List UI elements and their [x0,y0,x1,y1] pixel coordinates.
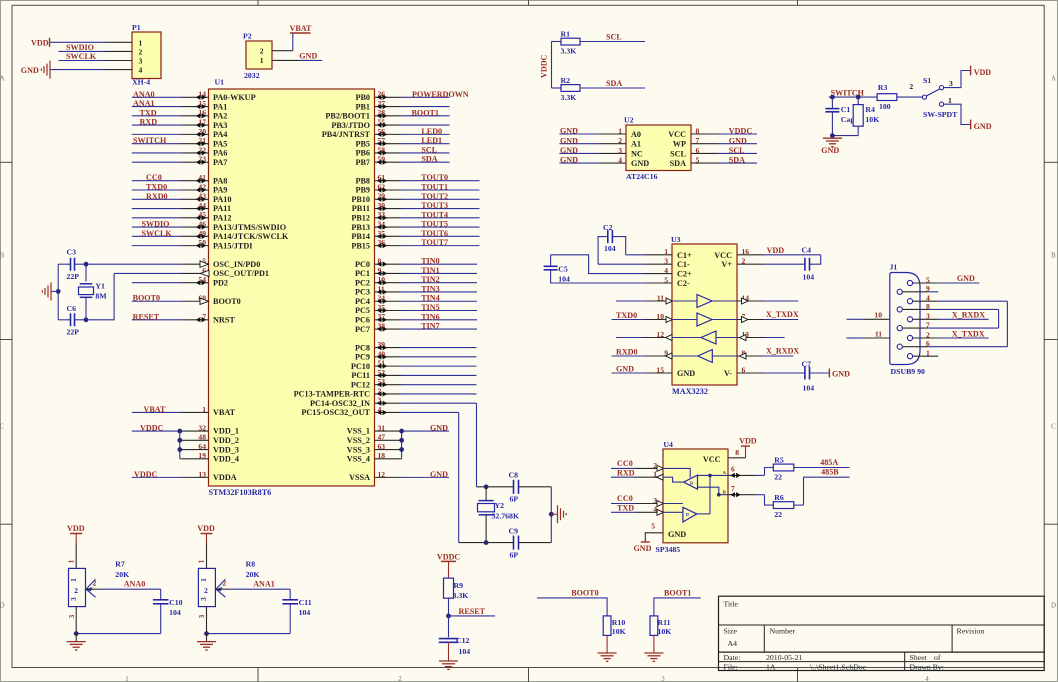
svg-text:PA1: PA1 [213,102,227,111]
svg-text:PA4: PA4 [213,130,227,139]
svg-text:TIN1: TIN1 [421,266,439,275]
svg-text:22: 22 [774,510,782,519]
svg-text:5: 5 [926,275,930,284]
svg-text:RXD0: RXD0 [616,348,638,357]
svg-text:PC13-TAMPER-RTC: PC13-TAMPER-RTC [294,390,371,399]
svg-text:104: 104 [558,275,570,284]
svg-text:R1: R1 [561,30,571,39]
svg-text:Sheet: Sheet [910,653,928,662]
svg-text:32.768K: 32.768K [492,512,520,521]
svg-text:GND: GND [832,370,850,379]
svg-text:PB14: PB14 [351,232,370,241]
svg-text:10K: 10K [658,627,672,636]
svg-text:PB1: PB1 [355,102,370,111]
svg-text:2: 2 [222,579,226,588]
svg-text:SW-SPDT: SW-SPDT [923,110,958,119]
svg-text:C7: C7 [802,360,812,369]
svg-text:GND: GND [677,369,695,378]
svg-text:VDDC: VDDC [140,424,164,433]
svg-text:ANA1: ANA1 [133,99,155,108]
svg-text:PC7: PC7 [355,325,370,334]
svg-text:1: 1 [197,559,205,563]
svg-text:RXD: RXD [617,468,635,477]
svg-text:XH-4: XH-4 [132,78,150,87]
svg-text:GND: GND [299,52,317,61]
svg-text:TOUT2: TOUT2 [421,192,448,201]
svg-text:GND: GND [430,470,448,479]
svg-text:2: 2 [139,47,143,56]
svg-text:PC4: PC4 [355,297,370,306]
svg-text:C8: C8 [509,471,519,480]
svg-text:C2-: C2- [677,279,690,288]
svg-text:VSS_4: VSS_4 [347,455,370,464]
svg-text:RESET: RESET [133,312,160,321]
svg-text:R4: R4 [865,105,875,114]
svg-text:LED0: LED0 [421,127,442,136]
svg-text:SCL: SCL [729,146,745,155]
svg-text:B: B [723,490,726,495]
svg-text:GND: GND [560,146,578,155]
svg-text:TXD: TXD [140,108,157,117]
svg-text:PA14/JTCK/SWCLK: PA14/JTCK/SWCLK [213,232,289,241]
svg-text:TOUT3: TOUT3 [421,201,448,210]
svg-text:2: 2 [909,82,913,91]
svg-text:2: 2 [74,586,78,595]
svg-text:9: 9 [926,284,930,293]
svg-text:C9: C9 [509,527,519,536]
svg-text:PA9: PA9 [213,186,227,195]
svg-text:GND: GND [21,66,39,75]
svg-text:3: 3 [139,57,143,66]
svg-text:PB10: PB10 [351,195,370,204]
svg-text:NC: NC [631,149,643,158]
svg-text:VBAT: VBAT [144,405,166,414]
svg-text:6: 6 [926,339,930,348]
svg-text:3: 3 [68,614,76,618]
svg-text:NRST: NRST [213,315,235,324]
svg-text:VCC: VCC [703,455,721,464]
svg-text:1: 1 [202,405,206,414]
svg-text:PC12: PC12 [351,380,370,389]
svg-text:BOOT0: BOOT0 [571,589,598,598]
svg-text:CC0: CC0 [146,173,162,182]
svg-text:A4: A4 [728,639,738,648]
svg-text:TOUT4: TOUT4 [421,210,448,219]
svg-text:VDD_4: VDD_4 [213,455,239,464]
svg-text:BOOT1: BOOT1 [664,589,691,598]
svg-text:TOUT0: TOUT0 [421,173,448,182]
svg-text:20K: 20K [115,570,129,579]
svg-text:C6: C6 [67,304,77,313]
svg-text:PC2: PC2 [355,278,370,287]
svg-text:SCL: SCL [421,145,437,154]
svg-text:64: 64 [198,442,206,451]
svg-text:TIN4: TIN4 [421,294,439,303]
svg-text:BOOT0: BOOT0 [213,297,241,306]
svg-text:STM32F103R8T6: STM32F103R8T6 [209,488,272,497]
svg-text:Date:: Date: [724,653,741,662]
svg-text:3.3K: 3.3K [453,591,469,600]
svg-text:ANA1: ANA1 [253,580,275,589]
svg-text:RXD: RXD [140,118,158,127]
svg-text:GND: GND [821,146,839,155]
svg-text:TOUT5: TOUT5 [421,220,448,229]
svg-text:RESET: RESET [459,607,486,616]
svg-text:2: 2 [93,579,97,588]
svg-text:TOUT6: TOUT6 [421,229,448,238]
svg-text:104: 104 [299,608,311,617]
svg-text:GND: GND [560,136,578,145]
svg-text:OSC_IN/PD0: OSC_IN/PD0 [213,260,260,269]
svg-text:AT24C16: AT24C16 [626,172,658,181]
svg-text:TXD: TXD [617,503,634,512]
svg-text:VDD_2: VDD_2 [213,436,239,445]
svg-text:104: 104 [169,608,181,617]
svg-text:TOUT1: TOUT1 [421,183,448,192]
svg-text:PC8: PC8 [355,343,370,352]
svg-text:C5: C5 [558,265,568,274]
svg-text:PB4/JNTRST: PB4/JNTRST [322,130,371,139]
svg-text:C12: C12 [456,636,470,645]
svg-text:2: 2 [653,461,657,470]
svg-text:19: 19 [198,451,206,460]
svg-text:4: 4 [618,156,622,165]
svg-text:SDA: SDA [670,159,686,168]
svg-text:2010-05-21: 2010-05-21 [766,653,802,662]
svg-text:3: 3 [200,597,208,601]
svg-text:6P: 6P [510,495,519,504]
svg-text:Title: Title [724,600,739,609]
svg-text:GND: GND [560,156,578,165]
svg-text:VDD: VDD [767,246,785,255]
svg-text:8: 8 [926,302,930,311]
svg-text:TIN0: TIN0 [421,257,439,266]
svg-text:D: D [1051,602,1056,610]
svg-text:PB13: PB13 [351,223,370,232]
svg-text:ANA0: ANA0 [133,90,155,99]
svg-text:1A_: 1A_ [766,662,780,671]
svg-text:8: 8 [735,448,739,457]
svg-text:3: 3 [198,614,206,618]
svg-text:PA7: PA7 [213,158,227,167]
svg-text:31: 31 [378,423,386,432]
svg-text:A1: A1 [631,140,641,149]
svg-text:PC15-OSC32_OUT: PC15-OSC32_OUT [301,408,370,417]
svg-text:1: 1 [260,56,264,65]
svg-text:PC14-OSC32_IN: PC14-OSC32_IN [310,399,370,408]
svg-text:SWDIO: SWDIO [66,43,94,52]
svg-text:P1: P1 [132,23,141,32]
svg-text:\..\Sheet1.SchDoc: \..\Sheet1.SchDoc [810,662,867,671]
svg-text:PA15/JTDI: PA15/JTDI [213,241,252,250]
svg-text:B: B [1051,252,1056,260]
svg-text:PA12: PA12 [213,214,232,223]
svg-text:Drawn By:: Drawn By: [910,662,944,671]
svg-text:10K: 10K [612,627,626,636]
svg-text:SCL: SCL [670,149,686,158]
svg-text:5: 5 [651,522,655,531]
svg-text:VCC: VCC [714,251,732,260]
svg-text:DSUB9 90: DSUB9 90 [891,367,926,376]
svg-text:VBAT: VBAT [213,408,236,417]
svg-text:3: 3 [661,675,665,682]
svg-text:104: 104 [803,273,815,282]
svg-text:File:: File: [724,662,738,671]
svg-text:PB2/BOOT1: PB2/BOOT1 [325,112,370,121]
svg-text:Y1: Y1 [95,282,105,291]
svg-text:TIN2: TIN2 [421,275,439,284]
svg-text:GND: GND [729,136,747,145]
svg-text:2: 2 [204,586,208,595]
svg-text:A: A [0,75,5,83]
svg-text:1: 1 [139,38,143,47]
svg-text:PC3: PC3 [355,288,370,297]
svg-text:VDD: VDD [739,437,757,446]
svg-text:PA0-WKUP: PA0-WKUP [213,93,256,102]
svg-text:PA6: PA6 [213,149,227,158]
svg-text:R7: R7 [115,560,125,569]
svg-text:TXD0: TXD0 [146,183,167,192]
svg-text:10: 10 [874,311,882,320]
svg-text:PC5: PC5 [355,306,370,315]
svg-text:GND: GND [957,274,975,283]
svg-text:BOOT0: BOOT0 [133,294,160,303]
svg-text:WP: WP [673,140,686,149]
svg-text:VDD: VDD [974,68,992,77]
svg-text:VDDC: VDDC [540,54,549,78]
svg-text:R8: R8 [246,560,256,569]
svg-text:PA8: PA8 [213,176,227,185]
svg-text:X_TXDX: X_TXDX [766,310,799,319]
svg-text:C2: C2 [603,223,613,232]
svg-text:1: 1 [653,470,657,479]
svg-text:C1: C1 [841,105,851,114]
svg-text:1: 1 [70,578,78,582]
svg-text:V-: V- [724,369,732,378]
svg-text:3.3K: 3.3K [561,47,577,56]
svg-text:PD2: PD2 [213,278,228,287]
svg-text:Number: Number [770,627,796,636]
svg-text:D: D [0,602,5,610]
svg-text:C10: C10 [169,598,183,607]
svg-text:GND: GND [634,544,652,553]
svg-text:SDA: SDA [729,156,745,165]
svg-text:C: C [1051,423,1056,431]
svg-text:2: 2 [398,675,402,682]
svg-text:8M: 8M [95,292,107,301]
svg-text:X_RXDX: X_RXDX [766,347,799,356]
svg-text:485A: 485A [820,458,838,467]
svg-text:CC0: CC0 [617,459,633,468]
svg-text:R10: R10 [612,618,626,627]
svg-text:J1: J1 [890,263,898,272]
svg-text:R9: R9 [454,581,464,590]
svg-text:7: 7 [926,321,930,330]
svg-text:PA10: PA10 [213,195,232,204]
svg-text:TXD0: TXD0 [616,311,637,320]
svg-text:22P: 22P [67,328,80,337]
svg-text:GND: GND [668,530,686,539]
svg-text:3: 3 [70,597,78,601]
svg-text:Revision: Revision [957,627,985,636]
svg-text:VDDC: VDDC [134,470,158,479]
svg-text:R2: R2 [561,76,571,85]
svg-text:VDDC: VDDC [729,127,753,136]
svg-text:PC1: PC1 [355,269,370,278]
svg-text:104: 104 [803,384,815,393]
svg-text:SP3485: SP3485 [656,545,681,554]
svg-text:TIN5: TIN5 [421,303,439,312]
svg-text:POWERDOWN: POWERDOWN [412,90,469,99]
svg-text:VDD: VDD [67,524,85,533]
svg-text:R6: R6 [774,493,784,502]
svg-text:Y2: Y2 [495,501,505,510]
svg-text:PB0: PB0 [355,93,370,102]
svg-text:TOUT7: TOUT7 [421,238,448,247]
svg-text:VDD_1: VDD_1 [213,427,239,436]
svg-text:B: B [0,252,5,260]
svg-text:C2+: C2+ [677,270,692,279]
svg-text:2032: 2032 [244,71,260,80]
svg-text:1: 1 [618,126,622,135]
svg-text:BOOT1: BOOT1 [412,108,439,117]
svg-text:20K: 20K [246,570,260,579]
svg-text:22: 22 [774,473,782,482]
svg-text:A0: A0 [631,130,641,139]
svg-text:C11: C11 [299,598,312,607]
svg-text:C1+: C1+ [677,251,692,260]
svg-text:X_TXDX: X_TXDX [952,329,985,338]
svg-text:VSS_3: VSS_3 [347,445,370,454]
svg-text:P2: P2 [243,32,252,41]
svg-text:of: of [934,653,941,662]
svg-text:U4: U4 [663,440,673,449]
svg-text:PC9: PC9 [355,353,370,362]
svg-text:6P: 6P [510,551,519,560]
svg-text:U3: U3 [671,235,681,244]
svg-text:PB11: PB11 [352,204,370,213]
svg-text:GND: GND [560,127,578,136]
svg-text:PB5: PB5 [355,139,370,148]
svg-text:13: 13 [198,470,206,479]
svg-text:TIN3: TIN3 [421,284,439,293]
svg-text:SWCLK: SWCLK [142,229,173,238]
svg-text:PB15: PB15 [351,241,370,250]
svg-text:PB9: PB9 [355,186,370,195]
svg-text:PB6: PB6 [355,149,370,158]
svg-text:4: 4 [925,675,929,682]
svg-text:1: 1 [67,559,75,563]
svg-text:X_RXDX: X_RXDX [952,311,985,320]
svg-text:48: 48 [198,433,206,442]
svg-text:VDD: VDD [31,39,49,48]
svg-text:104: 104 [604,244,616,253]
svg-text:SDA: SDA [421,155,437,164]
svg-text:RXD0: RXD0 [146,192,168,201]
svg-text:18: 18 [378,451,386,460]
svg-text:GND: GND [631,159,649,168]
svg-text:47: 47 [378,433,386,442]
svg-text:U1: U1 [215,78,225,87]
svg-text:63: 63 [378,442,386,451]
svg-text:GND: GND [974,122,992,131]
svg-text:10K: 10K [865,115,879,124]
svg-text:3: 3 [653,496,657,505]
svg-text:SCL: SCL [606,33,622,42]
svg-text:1: 1 [926,349,930,358]
svg-text:V+: V+ [721,260,732,269]
svg-text:1: 1 [125,675,129,682]
svg-text:3: 3 [949,79,953,88]
svg-text:PA2: PA2 [213,112,227,121]
svg-text:1: 1 [200,578,208,582]
svg-text:C4: C4 [802,246,812,255]
svg-text:100: 100 [879,102,891,111]
svg-text:PA5: PA5 [213,139,227,148]
svg-text:TIN6: TIN6 [421,312,439,321]
svg-text:SWDIO: SWDIO [142,220,170,229]
svg-text:PA11: PA11 [213,204,231,213]
svg-text:C: C [0,423,5,431]
svg-text:104: 104 [459,647,471,656]
svg-text:PB7: PB7 [355,158,370,167]
svg-text:OSC_OUT/PD1: OSC_OUT/PD1 [213,269,269,278]
svg-text:6: 6 [731,465,735,474]
svg-text:D: D [686,512,689,517]
svg-text:MAX3232: MAX3232 [672,387,708,396]
svg-text:3: 3 [926,312,930,321]
svg-text:A: A [1051,75,1056,83]
svg-text:22P: 22P [67,272,80,281]
svg-text:VSS_2: VSS_2 [347,436,370,445]
svg-text:PB12: PB12 [351,214,370,223]
svg-text:GND: GND [430,424,448,433]
svg-text:GND: GND [616,365,634,374]
svg-text:485B: 485B [821,468,839,477]
svg-text:12: 12 [378,470,386,479]
svg-text:CC0: CC0 [617,494,633,503]
svg-text:VCC: VCC [668,130,686,139]
svg-text:R3: R3 [878,83,888,92]
svg-text:PC10: PC10 [351,362,370,371]
svg-text:3.3K: 3.3K [561,93,577,102]
svg-text:SDA: SDA [606,79,622,88]
svg-text:PC6: PC6 [355,315,370,324]
svg-text:PB8: PB8 [355,176,370,185]
svg-text:PB3/JTDO: PB3/JTDO [331,121,370,130]
svg-text:PA3: PA3 [213,121,227,130]
svg-text:VDD: VDD [197,524,215,533]
svg-text:7: 7 [731,484,735,493]
svg-text:SWITCH: SWITCH [133,136,167,145]
svg-text:VDDC: VDDC [437,553,461,562]
svg-text:Size: Size [724,627,738,636]
svg-text:VSSA: VSSA [349,473,370,482]
svg-text:2: 2 [618,136,622,145]
svg-text:PC11: PC11 [351,371,370,380]
svg-text:R5: R5 [774,455,784,464]
svg-text:32: 32 [198,423,206,432]
svg-text:VDD_3: VDD_3 [213,445,239,454]
svg-text:SWCLK: SWCLK [66,52,97,61]
svg-text:ANA0: ANA0 [124,580,146,589]
svg-text:11: 11 [875,329,882,338]
svg-text:PA13/JTMS/SWDIO: PA13/JTMS/SWDIO [213,223,286,232]
svg-text:4: 4 [653,505,657,514]
svg-text:3: 3 [618,146,622,155]
svg-text:C3: C3 [67,248,77,257]
svg-text:S1: S1 [923,76,931,85]
